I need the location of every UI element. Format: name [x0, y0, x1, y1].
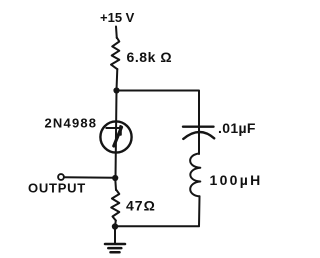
wire supply lead [115, 27, 118, 39]
transistor Q1 inner tick [119, 126, 122, 134]
wire node A to right branch [117, 91, 200, 155]
svg-text:OUTPUT: OUTPUT [28, 181, 86, 196]
terminal OUTPUT open circle [58, 174, 64, 180]
svg-text:+15 V: +15 V [100, 10, 135, 25]
svg-text:2N4988: 2N4988 [45, 116, 98, 131]
wire output lead [64, 176, 115, 179]
resistor R2 47 ohm [111, 190, 119, 221]
node A junction dot [113, 87, 119, 93]
transistor Q1 2N4988 circle [100, 121, 131, 152]
transistor Q1 inner diagonal [114, 127, 122, 146]
capacitor C1 curved plate [183, 132, 214, 139]
resistor R1 6.8k [111, 38, 119, 70]
wire ground lead [114, 227, 116, 244]
svg-text:.01µF: .01µF [218, 120, 256, 136]
svg-text:47Ω: 47Ω [126, 198, 156, 214]
wire left branch through Q1 [116, 91, 117, 179]
inductor L1 [190, 154, 200, 197]
capacitor C1 top plate [183, 125, 214, 127]
wire R2 top lead [114, 178, 117, 190]
ground bar 2 [108, 247, 121, 250]
wire R2 bottom lead [114, 221, 117, 227]
svg-text:6.8k Ω: 6.8k Ω [127, 49, 173, 65]
wire L1 to bottom [115, 196, 200, 226]
svg-text:100µH: 100µH [210, 172, 263, 188]
node ground junction dot [112, 223, 118, 229]
ground bar 3 [111, 251, 120, 254]
node output junction dot [112, 175, 118, 181]
transistor Q1 inner bar [106, 127, 120, 129]
ground bar 1 [105, 243, 125, 246]
wire R1 bottom lead [116, 69, 119, 90]
